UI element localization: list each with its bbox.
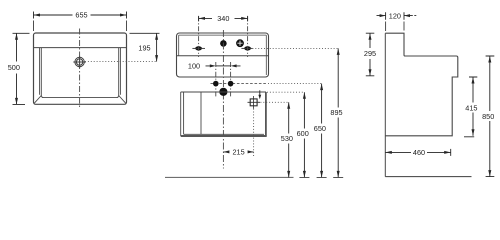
mounting hole (filled) on deck	[220, 40, 227, 47]
hidden line through wall fixing holes	[211, 83, 267, 85]
dimension 600	[303, 92, 305, 177]
svg-text:120: 120	[389, 11, 401, 20]
pedestal bottom edge (thick)	[181, 135, 267, 137]
dimension 415	[464, 77, 477, 137]
dimension 850	[486, 56, 495, 177]
pedestal left edge (double)	[181, 92, 184, 136]
dimension 340	[199, 16, 248, 21]
corner chamfer bottom-right	[119, 96, 126, 104]
bowl inner bottom line	[44, 97, 117, 99]
svg-text:415: 415	[465, 103, 477, 112]
dimension 650	[321, 84, 323, 178]
bowl inner wall left (double line)	[40, 48, 42, 96]
svg-text:850: 850	[482, 112, 494, 121]
drain outlet symbol (plan)	[73, 56, 86, 69]
dimension 215	[223, 151, 253, 153]
dimension 195	[130, 33, 160, 61]
dotted level line at fixing holes (650)	[268, 83, 322, 85]
svg-text:295: 295	[364, 49, 376, 58]
basin front inner offset lines	[179, 35, 267, 75]
right tap hole (edge view lens)	[241, 46, 252, 50]
svg-text:895: 895	[330, 108, 342, 117]
dotted level line at inlet (530)	[258, 101, 289, 103]
fixing hole centerline left	[215, 62, 217, 98]
dimension 460	[385, 149, 450, 156]
main fixture centerline	[222, 30, 224, 169]
overflow screw hole (black with white cross)	[236, 39, 244, 47]
centerline right tap	[247, 17, 249, 58]
svg-text:100: 100	[188, 62, 200, 71]
centerline of plan view	[79, 29, 81, 108]
dotted level line at tap holes (895)	[252, 47, 338, 49]
svg-text:215: 215	[233, 148, 245, 157]
svg-text:195: 195	[138, 44, 150, 53]
svg-text:655: 655	[75, 11, 87, 20]
bowl inner wall right (double line)	[119, 48, 121, 96]
floor reference line	[165, 176, 294, 178]
fixing hole centerline right	[230, 62, 232, 98]
svg-text:530: 530	[281, 134, 293, 143]
bowl corner rounding left	[41, 96, 43, 98]
wall fixing hole left	[213, 81, 219, 87]
dimension 100 (arrows outside)	[206, 65, 241, 67]
wall back line	[384, 33, 386, 176]
pedestal top edge	[181, 91, 266, 93]
wall fixing hole right	[228, 81, 234, 87]
water inlet square symbol	[248, 96, 261, 109]
dimension 895	[337, 48, 339, 177]
corner chamfer bottom-left	[34, 96, 41, 104]
svg-text:460: 460	[413, 148, 425, 157]
pedestal inner panel line	[200, 93, 202, 135]
basin front outer outline	[177, 33, 269, 77]
basin outer rim (plan)	[34, 33, 127, 104]
svg-text:340: 340	[217, 14, 229, 23]
small down arrow above inlet	[259, 90, 261, 96]
semi-pedestal front	[181, 92, 267, 137]
inlet centerline (dotted vertical)	[253, 109, 255, 157]
left tap hole (edge view lens)	[192, 46, 205, 50]
side profile outline	[385, 33, 458, 136]
dotted reference line drain to 195 dim	[85, 61, 157, 63]
svg-text:500: 500	[8, 63, 20, 72]
drain outlet (front, filled)	[219, 88, 227, 96]
floor line (side view)	[385, 176, 471, 178]
dimension 120 (arrows outside)	[377, 12, 417, 31]
dimension 500	[13, 33, 30, 104]
deck front edge line	[177, 55, 269, 57]
centerline left tap	[198, 17, 200, 58]
dimension 530	[288, 102, 290, 177]
back ledge edge line	[34, 47, 127, 49]
pedestal right edge	[265, 92, 267, 137]
bowl corner rounding right	[117, 96, 119, 98]
dimension 295	[366, 33, 375, 76]
dimension 655	[34, 12, 127, 32]
pedestal bottom inner line	[184, 133, 264, 135]
dotted level line at drain (600)	[267, 91, 304, 93]
svg-text:650: 650	[314, 124, 326, 133]
svg-text:600: 600	[297, 129, 309, 138]
